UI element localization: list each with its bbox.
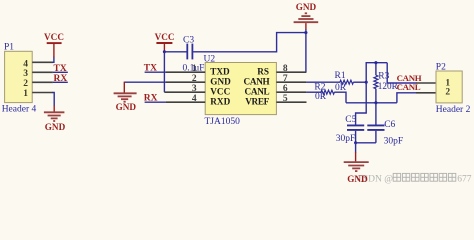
svg-text:1: 1 [192,64,197,74]
U2 pin 7 CANH [276,81,306,83]
svg-text:7: 7 [283,74,288,84]
svg-text:R1: R1 [335,71,346,81]
svg-text:3: 3 [192,84,197,94]
junction VCC node [163,50,166,53]
svg-text:R3: R3 [378,71,389,81]
svg-text:P1: P1 [4,43,14,53]
wire pin4 to VCC [53,57,54,63]
wire C3 to RS/GND node [193,33,306,52]
svg-text:RXD: RXD [210,96,230,106]
watermark CSDN [357,173,472,184]
U2 pin 3 VCC [164,91,205,93]
P1 pin 1 stub [32,92,53,94]
wire pin1 to GND [53,93,55,107]
U2 pin 5 VREF [276,101,306,103]
svg-text:P2: P2 [436,62,446,72]
svg-text:C3: C3 [183,36,194,46]
svg-text:U2: U2 [204,54,216,64]
capacitor C5 [336,115,365,144]
svg-text:C5: C5 [345,115,356,125]
svg-text:RX: RX [54,74,68,84]
junction C5 bottom node [354,141,357,144]
op-amp/IC U2 TJA1050 body [204,54,277,127]
U2 pin 2 GND [166,81,206,83]
svg-text:RS: RS [257,66,269,76]
svg-text:GND: GND [210,76,231,86]
svg-text:VCC: VCC [210,86,230,96]
U2 pin 6 CANL [276,91,306,93]
P1 pin 2 stub [32,81,53,83]
wire RS node down to pin 8 [305,33,307,73]
resistor R2 [314,82,334,102]
junction node A [365,81,368,84]
wire GND stub bottom right [355,143,357,153]
P1 pin 4 stub [32,61,53,63]
P2 pin 2 stub [416,92,436,94]
svg-text:3: 3 [23,69,28,79]
svg-text:RX: RX [144,94,158,104]
wire RX at P1 [53,81,68,83]
svg-text:CANL: CANL [397,82,421,92]
wire U2 pin2 to GND [124,81,165,83]
svg-text:Header 2: Header 2 [436,105,471,115]
ground GND at U2 pin2 [114,82,137,112]
svg-text:TXD: TXD [210,66,230,76]
wire U2 pin7 to R1 [306,81,340,83]
capacitor C6 [367,103,403,147]
junction R3 bottom node [374,101,377,104]
wire CANL to P2 [397,93,417,103]
svg-text:CANH: CANH [244,76,270,86]
wire TX at P1 [53,71,68,73]
svg-text:6: 6 [283,84,288,94]
svg-text:2: 2 [445,88,450,98]
resistor R1 [335,71,354,93]
svg-text:C6: C6 [384,120,395,130]
wire VCC to C3 [164,51,186,53]
wire RX to U2 [145,101,166,103]
svg-text:2: 2 [23,79,28,89]
svg-text:677: 677 [457,174,472,184]
wire CANH to P2 [387,63,416,83]
svg-text:VCC: VCC [155,32,175,42]
wire CANH column and jog to C5 [356,63,388,125]
U2 pin 1 TXD [166,71,206,73]
U2 pin 4 RXD [166,101,206,103]
svg-text:30pF: 30pF [336,134,356,144]
wire U2 pin6 to R2 [306,91,321,93]
svg-text:2: 2 [192,74,197,84]
svg-text:30pF: 30pF [384,136,404,146]
power VCC mid [155,32,175,52]
wire R2 down to CANL run [334,92,346,103]
svg-text:TX: TX [54,64,67,74]
svg-text:8: 8 [283,64,288,74]
svg-text:TJA1050: TJA1050 [205,117,241,127]
resistor R3 [374,63,399,103]
wire R1 to node A [353,81,366,83]
wire C5 to C6 bottom [356,142,376,144]
junction RS node [304,31,307,34]
svg-text:TX: TX [144,64,157,74]
header P1 body [2,43,37,115]
U2 pin 8 RS [276,71,306,73]
P1 pin 3 stub [32,71,53,73]
ground GND at P1 [44,106,66,133]
svg-text:VCC: VCC [44,32,64,42]
svg-text:1: 1 [23,89,28,99]
wire VCC rail down to pin3 [163,52,165,92]
svg-text:Header 4: Header 4 [2,105,37,115]
P2 pin 1 stub [416,82,436,84]
svg-text:4: 4 [23,59,28,69]
wire CANL bottom run [346,102,397,104]
svg-text:VREF: VREF [245,96,269,106]
header P2 body [436,62,471,115]
svg-text:0R: 0R [315,92,327,102]
junction R3 top node [374,61,377,64]
svg-text:GND: GND [45,122,66,132]
capacitor C3 [183,36,205,74]
svg-text:R2: R2 [314,82,325,92]
svg-text:5: 5 [283,94,288,104]
svg-text:GND: GND [116,102,137,112]
svg-text:GND: GND [296,2,317,12]
svg-text:GND: GND [347,174,368,184]
svg-text:4: 4 [192,94,197,104]
power VCC at P1 [44,32,64,57]
wire TX to U2 [145,71,166,73]
svg-text:CANL: CANL [245,86,270,96]
ground GND bottom right [344,152,369,184]
ground GND top (inverted) [294,2,319,32]
